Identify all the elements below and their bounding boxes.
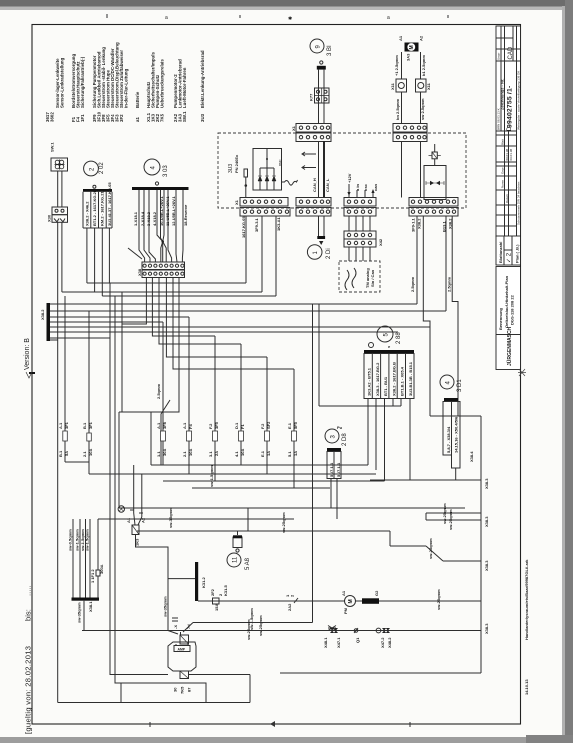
svg-text:Plan ( .B.): Plan ( .B.) — [515, 244, 520, 263]
svg-text:D: D — [507, 126, 513, 131]
svg-text:Elektr.Lenkung-Antriebsrad: Elektr.Lenkung-Antriebsrad — [200, 50, 205, 108]
svg-text:Sicherung/Fahrantrieb(-): Sicherung/Fahrantrieb(-) — [80, 56, 85, 108]
svg-text:5U7.1-1: 5U7.1-1 — [336, 462, 341, 477]
svg-text:Sin / Can: Sin / Can — [370, 269, 375, 287]
svg-text:bn 2.5qmm: bn 2.5qmm — [395, 98, 400, 120]
svg-text:b1 2.5qmm: b1 2.5qmm — [421, 55, 426, 76]
svg-text:Pu: Pu — [337, 425, 343, 430]
svg-text:5U7.1-1: 5U7.1-1 — [329, 462, 334, 477]
svg-text:Blattanzahl: Blattanzahl — [498, 242, 503, 263]
svg-text:X38.3: X38.3 — [484, 560, 489, 571]
svg-text:3F8: 3F8 — [162, 421, 167, 429]
svg-text:3F9-1.1: 3F9-1.1 — [411, 217, 416, 232]
svg-text:CAD: CAD — [508, 46, 514, 59]
svg-text:K77: K77 — [309, 93, 314, 101]
svg-text:2F2: 2F2 — [210, 588, 215, 596]
svg-text:2 88: 2 88 — [396, 332, 402, 344]
svg-text:X42: X42 — [378, 238, 383, 246]
svg-text:30: 30 — [173, 687, 178, 692]
svg-text:4.1: 4.1 — [234, 451, 239, 457]
svg-text:X1: X1 — [234, 199, 239, 205]
svg-text:sw-25qmm: sw-25qmm — [442, 503, 447, 524]
svg-text:5.1: 5.1 — [287, 451, 292, 457]
svg-text:in-der-Flur-Leitung: in-der-Flur-Leitung — [124, 68, 129, 108]
svg-text:CAN_L: CAN_L — [325, 178, 330, 192]
svg-text:Gepr: Gepr — [501, 167, 505, 174]
svg-text:Datum: Datum — [505, 194, 509, 203]
svg-text:5,8,7 - X38.3/4: 5,8,7 - X38.3/4 — [446, 426, 451, 453]
svg-text:3F9-3.1: 3F9-3.1 — [254, 217, 259, 232]
svg-text:+1 2.5qmm: +1 2.5qmm — [394, 55, 399, 76]
svg-text:2.5qmm: 2.5qmm — [410, 276, 415, 292]
svg-text:X47.1: X47.1 — [336, 637, 341, 648]
svg-text:A1: A1 — [398, 35, 403, 41]
svg-text:300A: 300A — [99, 564, 104, 574]
svg-text:A.1: A.1 — [156, 422, 161, 429]
svg-text:E.1: E.1 — [260, 450, 265, 457]
svg-text:SW.1: SW.1 — [182, 111, 187, 122]
svg-text:SW.1: SW.1 — [50, 142, 55, 152]
svg-text:X11: X11 — [426, 82, 431, 90]
svg-text:sw-25qmm: sw-25qmm — [448, 509, 453, 530]
svg-text:a1: a1 — [135, 117, 140, 122]
svg-text:BMC: BMC — [278, 159, 282, 167]
svg-text:KM.2 - 1617.KG.21: KM.2 - 1617.KG.21 — [100, 191, 105, 226]
svg-text:3602: 3602 — [50, 112, 55, 122]
svg-text:D.1: D.1 — [234, 422, 239, 429]
svg-text:2.1: 2.1 — [82, 451, 87, 457]
svg-text:M: M — [409, 45, 415, 49]
svg-text:B.1: B.1 — [58, 450, 63, 457]
svg-text:F.2: F.2 — [260, 423, 265, 429]
svg-text:Schutzvermerk DIN 34 beachten: Schutzvermerk DIN 34 beachten — [517, 181, 521, 225]
svg-text:✱: ✱ — [288, 16, 292, 22]
svg-text:11: 11 — [233, 556, 239, 563]
svg-text:X38.3: X38.3 — [484, 478, 489, 489]
svg-text:A1: A1 — [341, 590, 346, 596]
svg-text:99402755 /1-: 99402755 /1- — [507, 86, 514, 128]
svg-text:3F1: 3F1 — [88, 421, 93, 429]
svg-text:X38.4: X38.4 — [469, 451, 474, 462]
svg-text:87: 87 — [187, 687, 192, 692]
svg-text:sw-1.5qmm: sw-1.5qmm — [75, 529, 80, 551]
svg-text:2.5qmm: 2.5qmm — [447, 276, 452, 292]
svg-text:Sensor-Lenkradstellung: Sensor-Lenkradstellung — [60, 57, 65, 108]
svg-text:3.1: 3.1 — [208, 451, 213, 457]
svg-text:Benennung: Benennung — [498, 307, 503, 330]
svg-text:Version: B: Version: B — [24, 338, 31, 370]
svg-text:1F1: 1F1 — [80, 114, 85, 122]
svg-text:3 BI: 3 BI — [327, 45, 333, 56]
svg-text:JÜRGENMASCH: JÜRGENMASCH — [506, 326, 513, 366]
svg-text:2.1: 2.1 — [182, 451, 187, 457]
svg-text:CAN_H: CAN_H — [312, 178, 317, 192]
svg-text:2 02: 2 02 — [99, 162, 105, 174]
svg-text:5 A8: 5 A8 — [245, 557, 251, 570]
svg-text:30A: 30A — [162, 449, 167, 456]
svg-text:sw-35qmm: sw-35qmm — [163, 596, 168, 617]
svg-text:12-U5B.L+26V.1: 12-U5B.L+26V.1 — [171, 195, 176, 226]
svg-text:2-X18.4: 2-X18.4 — [140, 211, 145, 226]
svg-text:K31.5: K31.5 — [223, 585, 228, 596]
svg-text:sw-35qmm: sw-35qmm — [77, 602, 82, 623]
svg-text:A2: A2 — [141, 517, 146, 523]
svg-text:F4: F4 — [188, 424, 193, 429]
svg-text:PM: PM — [343, 607, 348, 614]
svg-text:1K3-A1: 1K3-A1 — [276, 216, 281, 231]
svg-text:Oelkreislauf-Hinkehalt-Plan: Oelkreislauf-Hinkehalt-Plan — [504, 275, 509, 328]
svg-text:1K3.A2 - BT5.1: 1K3.A2 - BT5.1 — [367, 367, 372, 396]
svg-text:sw-25qmm: sw-25qmm — [436, 589, 441, 610]
svg-text:sw-25qmm: sw-25qmm — [428, 538, 433, 559]
svg-text:X38.2: X38.2 — [448, 218, 453, 229]
svg-text:1-X18.1: 1-X18.1 — [133, 211, 138, 226]
svg-text:3A3: 3A3 — [406, 53, 411, 61]
svg-text:X1: X1 — [291, 125, 296, 131]
svg-text:7K5: 7K5 — [160, 113, 165, 122]
svg-text:sw-1.5qmm: sw-1.5qmm — [209, 465, 214, 487]
svg-text:✓ 2: ✓ 2 — [507, 252, 513, 263]
svg-text:X38: X38 — [137, 268, 142, 276]
svg-text:sw-25qmm: sw-25qmm — [281, 512, 286, 533]
svg-text:.....: ..... — [24, 585, 33, 596]
svg-text:Name: Name — [501, 180, 505, 188]
svg-text:09.01.98: 09.01.98 — [509, 148, 513, 160]
svg-text:4-X18.2: 4-X18.2 — [152, 211, 157, 226]
svg-text:10A: 10A — [88, 449, 93, 456]
svg-text:BRN 08.03.13 K: BRN 08.03.13 K — [497, 108, 501, 130]
svg-text:1617.KG.05: 1617.KG.05 — [241, 216, 246, 238]
svg-text:2.5qmm: 2.5qmm — [156, 383, 161, 399]
svg-text:Zeichnungs - Nr.: Zeichnungs - Nr. — [500, 79, 505, 110]
svg-text:BT1 - BU1: BT1 - BU1 — [383, 376, 388, 396]
svg-text:Handlanterlysraum/ets/Baar/999: Handlanterlysraum/ets/Baar/99987GLi/-ark — [524, 559, 529, 640]
svg-text:Q1: Q1 — [355, 637, 360, 643]
svg-text:X47.2: X47.2 — [380, 637, 385, 648]
svg-text:sw-25qmm: sw-25qmm — [258, 615, 263, 636]
svg-text:a: a — [165, 15, 168, 21]
svg-text:SF2: SF2 — [266, 421, 271, 429]
svg-text:3 D1: 3 D1 — [457, 379, 463, 392]
svg-text:15A: 15A — [214, 604, 219, 611]
svg-text:+12V: +12V — [347, 173, 352, 183]
svg-text:1.1: 1.1 — [156, 451, 161, 457]
svg-text:X48.1: X48.1 — [323, 637, 328, 648]
svg-text:3F2: 3F2 — [119, 114, 124, 122]
svg-text:10A: 10A — [188, 449, 193, 456]
svg-text:bis:: bis: — [24, 609, 33, 621]
svg-text:3F1: 3F1 — [64, 421, 69, 429]
svg-text:F.2: F.2 — [208, 423, 213, 429]
svg-text:1A: 1A — [266, 451, 271, 456]
svg-text:sw-25qmm: sw-25qmm — [246, 619, 251, 640]
svg-text:18-Reserve: 18-Reserve — [183, 204, 188, 226]
svg-text:sw-35qmm: sw-35qmm — [168, 507, 173, 528]
svg-text:can: can — [373, 184, 378, 191]
svg-text:10A: 10A — [240, 449, 245, 456]
svg-text:sw 2.5qmm: sw 2.5qmm — [420, 98, 425, 120]
svg-text:BT1.2 - 1617.KG.2B: BT1.2 - 1617.KG.2B — [92, 189, 97, 226]
svg-text:[gueltig von: 28.02.2013: [gueltig von: 28.02.2013 — [24, 646, 33, 734]
svg-text:A1: A1 — [126, 517, 131, 523]
svg-text:3-X18.2: 3-X18.2 — [146, 211, 151, 226]
svg-text:X30: X30 — [47, 214, 52, 222]
svg-text:DGS-118 208 22: DGS-118 208 22 — [510, 294, 515, 325]
svg-text:3U3.B1.3B - B15.1: 3U3.B1.3B - B15.1 — [408, 361, 413, 396]
svg-text:14.10.13: 14.10.13 — [524, 679, 529, 695]
svg-text:M: M — [348, 599, 354, 603]
svg-text:5A: 5A — [64, 451, 69, 456]
svg-text:3U3.41.37 - 1617.KG.05: 3U3.41.37 - 1617.KG.05 — [107, 182, 112, 226]
svg-text:X38.1: X38.1 — [88, 601, 93, 612]
svg-text:AMP: AMP — [178, 648, 186, 652]
svg-text:BT1.B.1 - X05.4: BT1.B.1 - X05.4 — [400, 366, 405, 396]
svg-text:X38.2 - 1617.BG.B: X38.2 - 1617.BG.B — [391, 362, 396, 396]
svg-text:X11: X11 — [390, 82, 395, 90]
svg-text:E.1: E.1 — [287, 422, 292, 429]
svg-text:7d: 7d — [186, 624, 191, 629]
svg-text:X38.2: X38.2 — [417, 218, 422, 229]
svg-text:11-U5B.L+26V.1: 11-U5B.L+26V.1 — [165, 196, 170, 226]
svg-text:10-U5B.L+26V.1: 10-U5B.L+26V.1 — [159, 195, 164, 226]
svg-text:2A2: 2A2 — [287, 603, 292, 611]
svg-text:Lueft-Motor-Fahren: Lueft-Motor-Fahren — [182, 67, 187, 108]
svg-text:K31.2: K31.2 — [201, 577, 206, 588]
svg-text:X38.3 - 1617.BG.2: X38.3 - 1617.BG.2 — [375, 362, 380, 396]
svg-text:X38.2: X38.2 — [40, 309, 45, 320]
svg-text:X38.3: X38.3 — [484, 623, 489, 634]
svg-text:3F5: 3F5 — [214, 421, 219, 429]
svg-text:A2: A2 — [419, 35, 424, 41]
svg-text:1A: 1A — [293, 451, 298, 456]
svg-text:2A: 2A — [214, 451, 219, 456]
svg-text:G2: G2 — [374, 590, 379, 596]
svg-text:14,15,16 - X50.4/5/6: 14,15,16 - X50.4/5/6 — [454, 416, 459, 453]
svg-text:Blatt: Blatt — [501, 139, 505, 145]
svg-text:5F5: 5F5 — [293, 421, 298, 429]
svg-text:X48.2: X48.2 — [387, 637, 392, 648]
svg-text:PN 240Ex: PN 240Ex — [234, 154, 239, 173]
svg-text:sw-0.5qmm: sw-0.5qmm — [68, 529, 73, 551]
svg-text:osc: osc — [363, 183, 368, 191]
svg-text:7K5: 7K5 — [180, 686, 185, 694]
svg-text:A.1: A.1 — [58, 422, 63, 429]
svg-text:Batterie: Batterie — [135, 91, 140, 108]
svg-text:3U3: 3U3 — [200, 113, 205, 122]
svg-text:sw-1.5qmm: sw-1.5qmm — [85, 529, 90, 551]
svg-text:B13.1: B13.1 — [442, 221, 447, 232]
svg-text:-X: -X — [173, 625, 178, 629]
svg-text:a in: a in — [355, 184, 360, 191]
svg-text:3 03: 3 03 — [163, 165, 169, 177]
svg-text:2 D8: 2 D8 — [342, 433, 348, 446]
svg-text:X38.2 - X46.2: X38.2 - X46.2 — [85, 201, 90, 226]
svg-text:Ueberbrueckungsrelais: Ueberbrueckungsrelais — [160, 59, 165, 108]
svg-text:a: a — [387, 15, 390, 21]
svg-text:F1: F1 — [240, 424, 245, 429]
svg-text:B.1: B.1 — [82, 422, 87, 429]
svg-text:1 1F1 2: 1 1F1 2 — [90, 569, 95, 583]
svg-text:Weitergabe - sowie Vervielfael: Weitergabe - sowie Vervielfaeltigung 138… — [517, 71, 521, 130]
svg-text:2 Di: 2 Di — [326, 248, 332, 259]
svg-text:Urspr: Urspr — [497, 53, 501, 60]
svg-text:X38.3: X38.3 — [484, 516, 489, 527]
svg-text:A.1: A.1 — [182, 422, 187, 429]
